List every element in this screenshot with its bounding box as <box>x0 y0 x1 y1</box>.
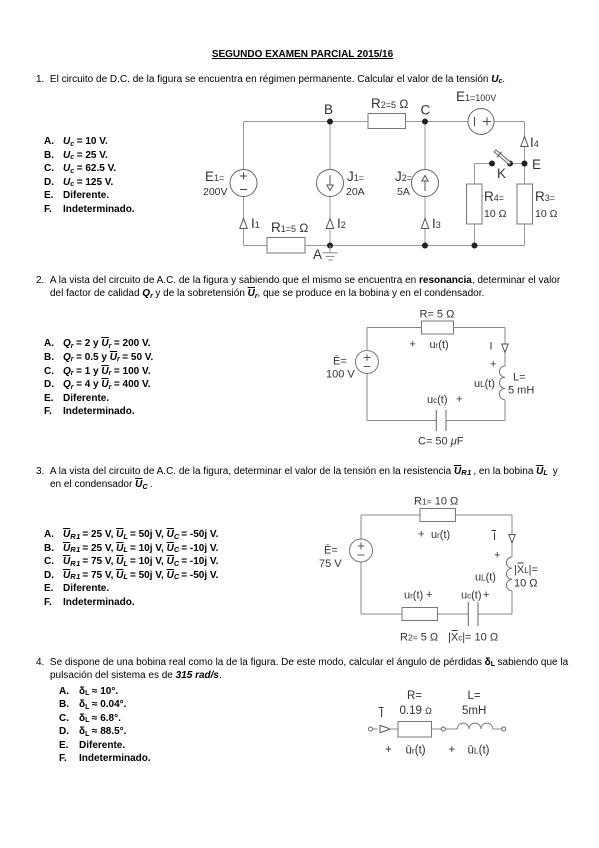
wire top rail <box>361 514 512 516</box>
inductor L (3 humps) <box>457 723 492 729</box>
svg-text:ur(t): ur(t) <box>431 529 450 541</box>
capacitor XC <box>468 602 478 626</box>
svg-text:ur(t): ur(t) <box>430 339 449 351</box>
wire left vertical <box>366 328 368 421</box>
wire right vertical <box>511 515 513 614</box>
svg-text:R=: R= <box>407 690 422 702</box>
svg-text:+: + <box>456 394 462 406</box>
junction below R4 <box>472 243 478 249</box>
resistor R1 <box>267 238 305 254</box>
value label R2=5 ohm <box>371 96 408 111</box>
svg-text:K: K <box>497 166 506 181</box>
svg-text:J2=: J2= <box>395 169 412 184</box>
question 3 text <box>36 467 558 477</box>
voltage label uL(t) <box>475 572 496 584</box>
svg-text:I: I <box>380 708 383 720</box>
question 2 text <box>36 276 560 286</box>
svg-text:E1=: E1= <box>205 169 224 184</box>
voltage label uL(t) <box>474 378 495 390</box>
svg-text:+: + <box>385 744 392 756</box>
svg-text:200V: 200V <box>203 186 228 198</box>
circuit 2: AC resonance circuit figure <box>318 303 543 455</box>
svg-text:E: E <box>532 157 541 172</box>
node B <box>324 102 333 125</box>
wire middle vertical (J1 branch) <box>329 122 331 246</box>
svg-text:R2=5 Ω: R2=5 Ω <box>371 96 408 111</box>
current source J1 (20A) <box>317 170 344 197</box>
junction below J2 <box>422 243 428 249</box>
value label J1= 20A <box>346 169 365 198</box>
wire coil to right terminal <box>493 728 502 730</box>
current label I (with bar) <box>379 708 384 721</box>
polarity + uR(t) <box>385 744 426 757</box>
svg-text:100 V: 100 V <box>326 369 355 381</box>
circuit 4: real coil R-L series figure <box>360 683 540 761</box>
svg-text:I4: I4 <box>530 135 539 150</box>
voltage label uC(t) + bottom <box>461 589 489 602</box>
svg-text:uL(t): uL(t) <box>475 572 496 584</box>
wire bottom rail <box>361 613 512 615</box>
wire left vertical <box>360 515 362 614</box>
value label E= 100 V <box>326 356 355 381</box>
value label R= 5 ohm <box>420 309 455 321</box>
wire right vertical (through I4, E, R3) <box>524 122 526 246</box>
wire bottom rail <box>244 245 525 247</box>
right terminal <box>502 727 506 731</box>
svg-text:A: A <box>313 247 322 262</box>
svg-text:R1=5 Ω: R1=5 Ω <box>271 220 308 235</box>
voltage source E 75V <box>350 539 373 562</box>
voltage source E1 (200V, left) <box>230 170 257 197</box>
svg-text:I3: I3 <box>432 216 441 231</box>
svg-text:I2: I2 <box>337 216 346 231</box>
svg-text:L=: L= <box>468 690 481 702</box>
current arrow I1 <box>240 216 260 231</box>
svg-text:0.19 Ω: 0.19 Ω <box>400 705 433 717</box>
current arrow I4 <box>521 135 539 150</box>
svg-text:R4=: R4= <box>484 189 504 204</box>
current source J2 (5A) <box>412 170 439 197</box>
value label R1=5 ohm <box>271 220 308 235</box>
node E <box>522 157 542 172</box>
circuit 1: DC circuit figure <box>195 88 570 266</box>
inductor XL (coil) <box>506 557 512 591</box>
question 3 options <box>44 530 218 540</box>
resistor R4 <box>467 184 483 224</box>
current arrow I (with bar) <box>492 531 516 544</box>
polarity + uR(t) top <box>418 529 450 542</box>
svg-text:|XL|=: |XL|= <box>514 564 538 576</box>
resistor R2 <box>368 114 406 129</box>
wire right vertical <box>504 328 506 421</box>
svg-text:J1=: J1= <box>347 169 364 184</box>
node C <box>421 103 431 125</box>
svg-text:+: + <box>426 589 432 601</box>
svg-text:+: + <box>410 339 416 351</box>
polarity + uR(t) <box>410 339 449 352</box>
middle terminal <box>441 727 445 731</box>
current arrow (right-pointing) <box>380 725 390 732</box>
wire R4 branch <box>475 164 493 246</box>
wire J2 branch vertical <box>424 122 426 246</box>
voltage label uR(t) + bottom <box>404 589 432 602</box>
wire bottom rail <box>367 420 505 422</box>
svg-text:I: I <box>493 531 496 543</box>
svg-text:5 mH: 5 mH <box>508 385 534 397</box>
switch K <box>489 148 513 181</box>
svg-text:E1=100V: E1=100V <box>456 89 496 104</box>
svg-text:75 V: 75 V <box>319 558 342 570</box>
value label |XL|= 10 ohm <box>514 563 538 590</box>
voltage label uC(t) + <box>427 394 462 407</box>
svg-text:R= 5 Ω: R= 5 Ω <box>420 309 455 321</box>
inductor L (coil) <box>499 366 505 400</box>
svg-text:ūL(t): ūL(t) <box>468 745 490 757</box>
resistor R2 <box>402 608 438 621</box>
voltage source E1 (100V, top) <box>468 109 494 135</box>
svg-text:ur(t): ur(t) <box>404 590 423 602</box>
wire top from E1 to top-right corner <box>494 121 525 123</box>
wire arrow to R box <box>373 728 399 730</box>
question 1 text <box>36 75 505 86</box>
question 4 options <box>59 687 118 698</box>
left terminal <box>369 727 373 731</box>
value label E1=100V <box>456 89 496 104</box>
svg-text:+: + <box>494 550 500 562</box>
svg-text:R3=: R3= <box>535 189 555 204</box>
svg-text:ūr(t): ūr(t) <box>406 745 426 757</box>
wire R box to middle terminal <box>432 728 442 730</box>
resistor R3 <box>517 184 533 224</box>
polarity + uL(t) <box>449 744 490 757</box>
wire middle terminal to coil <box>445 728 457 730</box>
svg-text:Ē=: Ē= <box>333 356 347 368</box>
svg-text:I1: I1 <box>251 216 260 231</box>
value label C= 50 uF <box>418 436 464 448</box>
question 1 options <box>44 137 108 148</box>
svg-text:|Xc|= 10 Ω: |Xc|= 10 Ω <box>448 632 498 644</box>
svg-text:20A: 20A <box>346 186 365 198</box>
value label J2= 5A <box>395 169 412 198</box>
svg-text:+: + <box>483 589 489 601</box>
value label E1= 200V <box>203 169 228 198</box>
value label |XC|= 10 ohm <box>448 631 498 644</box>
svg-text:Ē=: Ē= <box>324 545 338 557</box>
svg-text:10 Ω: 10 Ω <box>484 208 507 220</box>
wire top rail <box>367 327 505 329</box>
value label R1= 10 ohm <box>414 496 458 508</box>
circuit 3: AC RLC series circuit figure <box>305 490 550 645</box>
svg-text:C= 50 μF: C= 50 μF <box>418 436 464 448</box>
value label L= 5mH <box>462 690 486 717</box>
value label L= 5 mH <box>508 372 534 397</box>
value label E= 75 V <box>319 545 342 571</box>
svg-text:I: I <box>490 341 493 353</box>
svg-text:+: + <box>418 529 424 541</box>
wire top C to E1 source <box>406 121 469 123</box>
question 4 text <box>36 658 568 669</box>
polarity + for uL <box>494 550 500 562</box>
current arrow I <box>490 341 509 353</box>
wire left vertical (E1 branch) <box>243 122 245 246</box>
svg-text:5A: 5A <box>397 186 410 198</box>
value label R2= 5 ohm <box>400 632 438 644</box>
resistor R <box>422 321 454 334</box>
resistor R box <box>398 722 432 738</box>
voltage source E 100V <box>356 351 379 374</box>
svg-text:R1= 10 Ω: R1= 10 Ω <box>414 496 458 508</box>
capacitor C <box>436 410 446 431</box>
svg-text:uL(t): uL(t) <box>474 378 495 390</box>
current arrow I2 <box>326 216 345 231</box>
current arrow I3 <box>421 216 440 231</box>
polarity + for uL <box>490 359 496 371</box>
svg-text:C: C <box>421 103 431 118</box>
value label R3= 10 ohm <box>535 189 558 220</box>
svg-text:+: + <box>490 359 496 371</box>
question 2 options <box>44 339 151 350</box>
svg-text:+: + <box>449 744 456 756</box>
wire switch to node E <box>510 163 525 165</box>
svg-text:L=: L= <box>513 372 526 384</box>
svg-text:uc(t): uc(t) <box>427 394 448 406</box>
node A with ground <box>313 243 338 263</box>
value label R= 0.19 ohm <box>400 690 433 717</box>
svg-text:uc(t): uc(t) <box>461 590 482 602</box>
value label R4= 10 ohm <box>484 189 507 220</box>
svg-text:B: B <box>324 102 333 117</box>
svg-text:10 Ω: 10 Ω <box>535 208 558 220</box>
svg-text:R2= 5 Ω: R2= 5 Ω <box>400 632 438 644</box>
wire top left B-segment <box>244 121 369 123</box>
resistor R1 <box>420 509 456 522</box>
svg-text:5mH: 5mH <box>462 705 486 717</box>
svg-text:10 Ω: 10 Ω <box>514 578 538 590</box>
title <box>3 50 599 60</box>
